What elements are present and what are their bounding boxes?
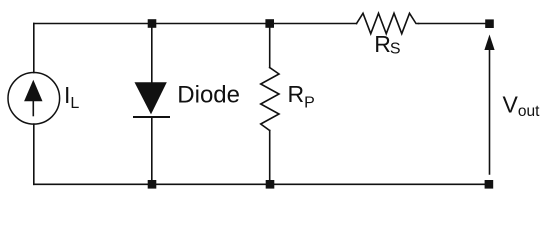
- Vout arrowhead: [484, 35, 494, 51]
- svg-text:Diode: Diode: [177, 82, 240, 109]
- node square top diode: [148, 19, 157, 28]
- resistor R_S: [357, 13, 419, 33]
- wire top rail right segment: [419, 23, 490, 25]
- node square top Rp: [265, 19, 274, 28]
- wire diode branch lower: [151, 117, 153, 184]
- node square bottom diode: [148, 180, 157, 189]
- svg-text:IL: IL: [64, 82, 79, 112]
- wire bottom rail: [34, 183, 489, 185]
- node square bottom Rp: [266, 180, 275, 189]
- current source arrow shaft: [32, 99, 34, 116]
- wire top rail left segment: [34, 23, 357, 25]
- node square bottom right: [485, 180, 494, 189]
- svg-text:RS: RS: [374, 31, 400, 58]
- resistor R_P: [261, 68, 279, 131]
- diode cathode bar: [134, 116, 169, 118]
- wire left rail upper: [33, 24, 35, 73]
- wire diode branch upper: [151, 24, 153, 84]
- wire Rp branch upper: [269, 24, 271, 68]
- diode D1 triangle: [135, 82, 167, 114]
- wire left rail lower: [33, 124, 35, 184]
- current source arrowhead: [24, 80, 42, 101]
- svg-text:RP: RP: [288, 81, 315, 112]
- wire Rp branch lower: [269, 131, 271, 185]
- Vout arrow shaft: [489, 46, 491, 174]
- svg-text:Vout: Vout: [503, 92, 541, 121]
- node square top right: [485, 19, 494, 28]
- current source I_L circle: [8, 73, 60, 125]
